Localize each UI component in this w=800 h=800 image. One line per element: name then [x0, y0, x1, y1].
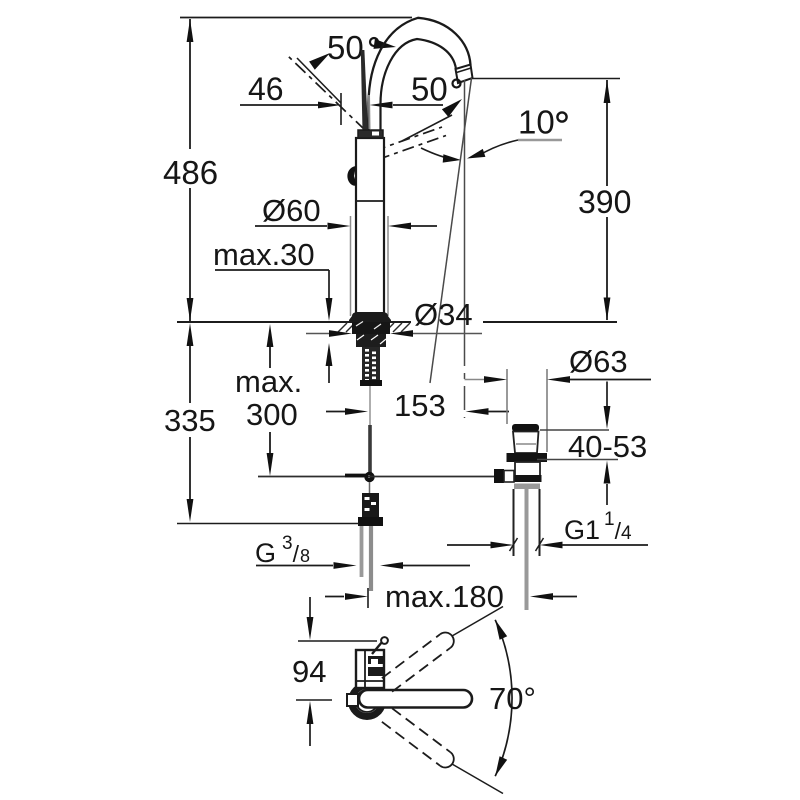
supply tails: [362, 526, 372, 591]
drain body: [507, 424, 548, 489]
faucet body: [356, 130, 384, 316]
svg-text:40-53: 40-53: [568, 429, 647, 464]
lever plan: [359, 690, 472, 708]
label 50 deg lever swing: [297, 29, 396, 103]
svg-text:10: 10: [518, 104, 555, 141]
swivel spout dashed: [374, 127, 446, 160]
svg-text:153: 153: [394, 388, 446, 423]
lower dashed lever: [382, 708, 454, 767]
spout arc: [369, 18, 471, 131]
base flange: [349, 312, 391, 322]
angle legs 70deg: [452, 607, 503, 794]
svg-text:94: 94: [292, 654, 326, 689]
drain centerline: [464, 342, 466, 418]
dimension dia 63: [465, 344, 652, 452]
pivot rings: [352, 686, 383, 717]
svg-text:max.30: max.30: [213, 237, 315, 272]
counter deck line: [177, 321, 617, 323]
dimension 153: [326, 388, 509, 423]
lever stick plan: [372, 637, 388, 654]
svg-text:Ø60: Ø60: [262, 193, 321, 228]
svg-text:335: 335: [164, 403, 216, 438]
tilted 10deg line: [430, 78, 472, 383]
dimension 94: [292, 597, 377, 746]
deck hatching: [338, 323, 410, 332]
dimension max300: [235, 324, 302, 476]
dimension dia 34: [306, 297, 482, 337]
svg-text:max.180: max.180: [385, 579, 504, 614]
dimension 335: [164, 323, 359, 524]
drain tailpipe: [514, 489, 540, 610]
cartridge plan: [356, 650, 384, 688]
dimension 40-53: [537, 382, 647, 506]
svg-text:390: 390: [578, 184, 631, 220]
svg-text:Ø34: Ø34: [414, 297, 473, 332]
mounting washer and nut: [352, 322, 390, 348]
threaded shank: [360, 347, 382, 386]
swivel arc arrow: [421, 148, 461, 163]
svg-text:50: 50: [327, 29, 364, 66]
pop-up knob: [347, 166, 356, 186]
svg-text:46: 46: [248, 71, 284, 107]
svg-text:486: 486: [163, 154, 218, 191]
label 50 deg spout swivel: [402, 71, 462, 142]
G38 connector: [358, 493, 383, 526]
plumb line: [464, 80, 466, 342]
pop-up rod: [258, 476, 494, 477]
dimension max30: [213, 237, 332, 383]
arc 70 deg: [489, 620, 536, 776]
svg-text:70°: 70°: [489, 681, 536, 716]
pull rod: [364, 386, 374, 493]
top reference line: [180, 17, 412, 19]
upper dashed lever: [382, 633, 454, 692]
pivot tab: [347, 694, 358, 706]
dimension 46: [240, 71, 443, 125]
dimension G1 1/4: [447, 509, 648, 551]
dimension 486 left: [163, 19, 218, 321]
dimension 390: [472, 79, 631, 321]
svg-text:50: 50: [411, 71, 448, 108]
aerator outlet: [456, 65, 473, 84]
dimension dia 60: [255, 193, 437, 316]
svg-text:max.: max.: [235, 364, 302, 399]
dimension max180: [325, 579, 577, 614]
lever tilted dash line: [288, 56, 366, 131]
svg-text:Ø63: Ø63: [569, 344, 628, 379]
lever stick: [361, 50, 370, 131]
rod clevis: [494, 469, 514, 483]
label G 3/8: [255, 533, 470, 569]
svg-text:300: 300: [246, 397, 298, 432]
label 10 deg: [467, 104, 567, 159]
